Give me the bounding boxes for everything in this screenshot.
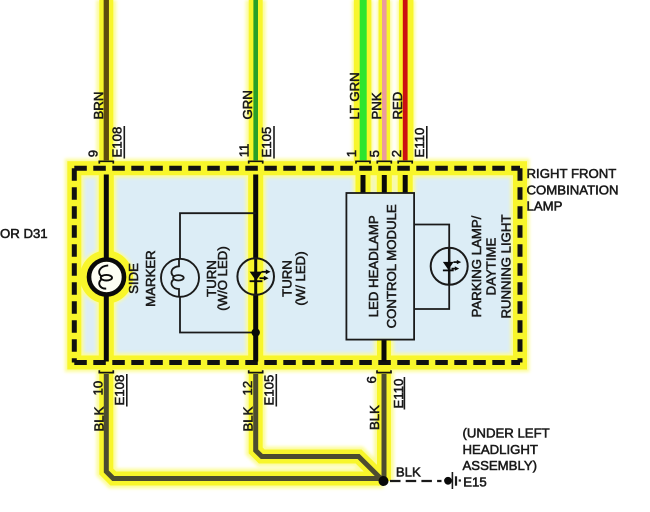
- BLK wire pin12 highlight: [256, 362, 384, 481]
- side marker filament: [99, 265, 112, 288]
- component box interior fill (light blue): [81, 175, 514, 356]
- svg-text:E110: E110: [391, 379, 406, 409]
- BLK wire pin10 highlight: [106, 362, 383, 479]
- svg-text:6: 6: [364, 376, 379, 383]
- bracket pin 1: [356, 161, 370, 163]
- wire RED highlight: [399, 0, 414, 161]
- stub pin2 to module: [403, 175, 408, 194]
- internal wire B highlight: [248, 168, 263, 362]
- svg-text:12: 12: [240, 381, 255, 396]
- svg-text:5: 5: [367, 150, 382, 157]
- bracket pin 6: [377, 370, 391, 372]
- box border highlight: [74, 168, 520, 362]
- parking LED cathode bar: [443, 269, 454, 271]
- svg-text:1: 1: [344, 150, 359, 157]
- underline E108 top: [123, 126, 125, 159]
- bracket pin 2: [398, 161, 412, 163]
- side marker bulb ring: [89, 260, 124, 295]
- BLK wire cores below box: [106, 374, 384, 481]
- turn LED arrows: [260, 269, 271, 280]
- svg-text:CONTROL MODULE: CONTROL MODULE: [384, 204, 399, 328]
- turn LED triangle: [250, 272, 263, 281]
- turn LED cathode bar: [250, 280, 263, 282]
- bracket pin 12: [249, 370, 263, 372]
- svg-text:HEADLIGHT: HEADLIGHT: [463, 442, 538, 457]
- internal wire A highlight: [99, 168, 114, 362]
- svg-text:BLK: BLK: [396, 465, 421, 480]
- svg-text:BLK: BLK: [241, 406, 256, 431]
- BRN core: [104, 0, 109, 160]
- svg-text:10: 10: [91, 381, 106, 396]
- turn (w/o led) branch wire: [180, 213, 256, 332]
- underlines for connector labels: [124, 126, 427, 410]
- svg-text:LAMP: LAMP: [527, 199, 563, 214]
- svg-text:11: 11: [237, 144, 252, 158]
- internal wire A glow: [96, 168, 116, 362]
- internal wire B glow: [246, 168, 266, 362]
- wire LT GRN highlight glow: [352, 0, 373, 161]
- bracket pin 11: [249, 161, 263, 163]
- ground connector symbol E15: [444, 472, 461, 489]
- svg-text:RUNNING LIGHT: RUNNING LIGHT: [499, 214, 514, 318]
- svg-text:OR D31: OR D31: [0, 226, 48, 241]
- parking LED triangle: [443, 262, 454, 270]
- bracket pin 5: [377, 161, 391, 163]
- turn (w/o led) bulb circle: [161, 259, 199, 297]
- BLK wire pin6 glow: [374, 340, 394, 481]
- svg-text:PNK: PNK: [369, 92, 384, 119]
- svg-text:(W/O LED): (W/O LED): [215, 246, 230, 310]
- svg-text:COMBINATION: COMBINATION: [527, 182, 619, 197]
- wire PNK highlight glow: [377, 0, 392, 161]
- turn (w/ led) circle: [237, 258, 274, 295]
- wire cores above box: [106, 0, 405, 160]
- stub pin1 to module: [361, 175, 366, 194]
- internal wire pin11 to pin12 (lower): [253, 295, 258, 362]
- wire GRN highlight: [249, 0, 263, 161]
- highlight solid yellow pass: [74, 0, 520, 481]
- node: branch junction on wire B: [252, 328, 260, 336]
- svg-text:BRN: BRN: [91, 92, 106, 120]
- parking LED arrows: [452, 260, 462, 271]
- connector brackets at pins (top side): [99, 161, 412, 372]
- BLK wire pin10 glow: [106, 362, 383, 479]
- svg-text:SIDE: SIDE: [126, 263, 141, 294]
- wire: BLK dashed to ground: [390, 480, 442, 482]
- BLK core pin12: [256, 374, 384, 481]
- internal wire pin11 to pin12 (upper): [253, 175, 258, 259]
- underline E105 bottom: [275, 374, 277, 407]
- wire LT GRN highlight: [354, 0, 372, 161]
- underline E105 top: [273, 126, 275, 159]
- parking LED inner wire: [448, 248, 451, 285]
- box dashed border: [74, 168, 520, 362]
- parking lamp branch wire: [414, 225, 449, 310]
- wire GRN highlight glow: [246, 0, 266, 161]
- svg-text:BLK: BLK: [367, 405, 382, 430]
- BLK wire pin6 highlight: [377, 340, 391, 481]
- stub pin9 to side marker: [104, 175, 109, 261]
- module pin stub highlights: [356, 168, 371, 193]
- RED core: [403, 0, 408, 160]
- BLK wire pin12 glow: [256, 362, 384, 481]
- underline E110 bottom: [403, 377, 405, 410]
- svg-text:(UNDER LEFT: (UNDER LEFT: [463, 426, 550, 441]
- side marker halo: [86, 256, 128, 298]
- svg-text:E105: E105: [262, 375, 277, 406]
- svg-text:DAYTIME: DAYTIME: [484, 237, 499, 295]
- stub side marker to pin10: [104, 295, 109, 362]
- side marker bulb interior: [91, 262, 122, 293]
- internal black wires: [106, 175, 405, 362]
- svg-text:2: 2: [389, 150, 404, 157]
- LT GRN core: [360, 0, 367, 160]
- svg-text:(W/ LED): (W/ LED): [293, 251, 308, 305]
- box border highlight glow: [74, 168, 520, 362]
- PNK core: [382, 0, 387, 160]
- underline E110 top: [426, 126, 428, 159]
- stub module to pin6: [382, 340, 387, 362]
- svg-text:9: 9: [86, 150, 101, 157]
- svg-text:BLK: BLK: [91, 406, 106, 431]
- svg-text:MARKER: MARKER: [143, 250, 158, 306]
- highlight glow pass (pale yellow outer): [74, 0, 520, 481]
- svg-text:E108: E108: [110, 127, 125, 158]
- GRN core: [253, 0, 258, 160]
- svg-text:ASSEMBLY): ASSEMBLY): [463, 458, 538, 473]
- side marker halo glow: [85, 256, 128, 299]
- svg-text:RIGHT FRONT: RIGHT FRONT: [527, 166, 617, 181]
- turn (w/o led) filament: [171, 259, 183, 297]
- svg-text:E108: E108: [112, 375, 127, 406]
- bracket pin 9: [99, 161, 113, 163]
- node: BLK junction dot: [379, 476, 389, 486]
- bracket pin 10: [99, 370, 113, 372]
- svg-text:E110: E110: [412, 128, 427, 158]
- wire PNK highlight: [379, 0, 391, 161]
- svg-text:RED: RED: [390, 92, 405, 120]
- svg-text:E15: E15: [463, 474, 486, 489]
- svg-text:LED HEADLAMP: LED HEADLAMP: [366, 215, 381, 317]
- internal wire pin11 to pin12 (through LED circle, thin): [254, 259, 257, 295]
- module pin stub glows: [353, 168, 373, 193]
- wire BRN highlight: [99, 0, 113, 161]
- stub pin5 to module: [382, 175, 387, 194]
- svg-text:LT GRN: LT GRN: [347, 72, 362, 119]
- BLK core pin10: [106, 374, 383, 479]
- underline E108 bottom: [126, 374, 128, 407]
- LED headlamp control module box: [346, 193, 414, 340]
- BLK core pin6: [382, 374, 387, 481]
- parking LED circle: [431, 248, 468, 285]
- svg-text:E105: E105: [259, 127, 274, 158]
- wire RED highlight glow: [397, 0, 415, 161]
- wire BRN highlight glow: [96, 0, 116, 161]
- svg-text:GRN: GRN: [240, 90, 255, 119]
- svg-text:PARKING LAMP/: PARKING LAMP/: [469, 215, 484, 317]
